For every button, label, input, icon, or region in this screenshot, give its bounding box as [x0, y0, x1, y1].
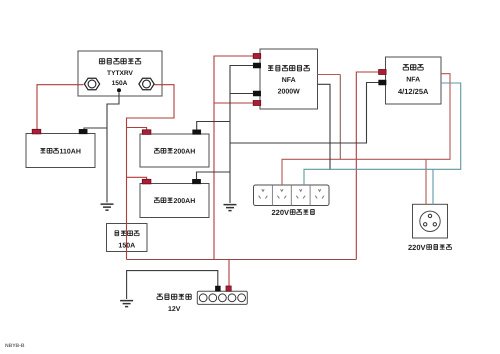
wire: isolator center tap to ground (dark): [107, 93, 119, 203]
input socket pin hole top: [428, 214, 431, 217]
output socket strip divider 1: [271, 185, 273, 206]
wire: charger DC + down to bus (red): [356, 72, 385, 260]
wire: cigarette lighter - to ground (dark): [127, 271, 218, 299]
lighter socket hole 1: [199, 294, 207, 302]
svg-text:200AH: 200AH: [174, 149, 196, 156]
wire: stub to aux battery B2 + terminal: [127, 128, 147, 132]
charger + terminal: [379, 70, 387, 75]
aux battery B3 + terminal: [142, 179, 151, 184]
svg-text:220V: 220V: [408, 243, 426, 252]
aux battery B2 box: [140, 134, 209, 167]
output socket cell 1 pin holes: [259, 189, 268, 198]
wire: inverter - terminal 1 to ground column (dark): [230, 66, 260, 204]
wire: AC live drop to input socket (red): [425, 159, 427, 204]
ground G3 (lighter negative): [120, 301, 133, 307]
wire: inverter AC live out to bus (red): [318, 74, 341, 76]
cigarette lighter socket X3 box: [197, 291, 247, 304]
wire: drop to cigarette lighter + (red): [228, 260, 230, 288]
input socket label 220V输入插座: [408, 243, 451, 252]
wire: AC live riser at x340 (dark red): [339, 75, 341, 160]
aux battery B3 label 副电瓶200AH: [154, 198, 195, 205]
isolator right hex stud terminal: [139, 78, 154, 90]
aux battery B2 label 副电瓶200AH: [154, 148, 195, 155]
wire: stub to aux battery B3 + terminal: [127, 177, 147, 181]
svg-text:220V: 220V: [272, 208, 290, 217]
svg-text:4/12/25A: 4/12/25A: [398, 87, 429, 96]
svg-text:TYTXRV: TYTXRV: [107, 70, 133, 77]
wire: isolator right terminal to aux battery + column (red): [127, 85, 175, 260]
ground G2 (aux/inverter negative): [224, 205, 237, 211]
output socket strip divider 3: [309, 185, 311, 206]
isolator U1 双电瓶隔离器 box: [78, 51, 162, 96]
svg-text:NFA: NFA: [282, 77, 296, 84]
output socket cell 3 pin holes: [296, 189, 305, 198]
main battery + terminal (red block): [32, 129, 41, 134]
svg-text:110AH: 110AH: [60, 149, 81, 156]
output socket cell 2 pin holes: [277, 189, 286, 198]
wire: branch to inverter + terminal 2 (red): [214, 102, 260, 104]
aux battery B3 - terminal: [192, 179, 200, 184]
main battery label 主电瓶110AH: [41, 148, 81, 155]
charger U3 充电器 box: [386, 57, 442, 104]
charger label 充电器: [403, 65, 423, 70]
output socket cell 4 pin holes: [315, 189, 324, 198]
lighter socket + terminal: [226, 286, 231, 291]
aux battery B2 - terminal: [193, 130, 201, 135]
lighter socket hole 4: [228, 294, 236, 302]
lighter socket label 点烟器插座: [157, 294, 191, 300]
svg-text:150A: 150A: [118, 243, 135, 250]
inverter U2 正弦波逆变器 box: [260, 49, 318, 109]
inverter label 正弦波逆变器: [268, 65, 309, 71]
220V input socket X2 box: [413, 204, 448, 238]
wire: AC live bus (red) output socket to charger: [282, 74, 450, 185]
charger - terminal: [379, 80, 387, 85]
wire: inverter - terminal 2 branch (dark): [230, 93, 260, 95]
svg-text:2000W: 2000W: [278, 89, 301, 96]
wire: main battery - to ground line (dark): [84, 128, 107, 130]
wire: aux battery B2 - to ground column (dark): [197, 122, 230, 130]
wire: charger - to ground column (dark): [230, 83, 386, 144]
lighter socket - terminal: [215, 286, 220, 291]
output socket label 220V输出插座: [272, 208, 315, 217]
isolator center tap node (dot): [117, 88, 121, 92]
svg-text:150A: 150A: [112, 80, 128, 87]
DC switch label 直流开关: [115, 231, 139, 236]
svg-text:12V: 12V: [168, 306, 181, 313]
wire: inverter AC neutral out to teal bus (dark): [318, 84, 331, 170]
output socket strip divider 2: [290, 185, 292, 206]
aux battery B2 + terminal: [142, 130, 151, 135]
wire: AC neutral drop to input socket (teal): [432, 169, 434, 204]
isolator left hex stud terminal: [84, 78, 99, 90]
wire: DC + bus to charger (red/maroon): [127, 259, 357, 261]
aux battery B3 box: [140, 184, 209, 218]
inverter - terminal 2: [253, 91, 261, 96]
lighter socket hole 5: [238, 294, 246, 302]
isolator label 双电瓶隔离器: [99, 58, 140, 64]
lighter socket hole 3: [219, 294, 227, 302]
wire: DC + riser to inverter + terminals (red): [214, 56, 260, 260]
input socket pin hole left: [424, 223, 427, 226]
wire: AC neutral bus (teal) output socket to charger: [304, 83, 461, 185]
inverter - terminal 1: [253, 63, 261, 68]
input socket round face: [420, 211, 440, 231]
wire: main battery + to isolator left terminal (red): [37, 85, 84, 130]
ground G1 (isolator/main battery negative): [101, 204, 114, 210]
wire: aux battery B3 - to ground column (dark): [197, 172, 231, 180]
lighter socket hole 2: [209, 294, 217, 302]
main battery - terminal (black block): [79, 129, 87, 134]
svg-text:NBYB-B: NBYB-B: [5, 343, 25, 349]
inverter + terminal 2: [253, 101, 261, 106]
main battery B1 box: [26, 134, 95, 168]
DC switch S1 直流开关 box: [107, 224, 148, 252]
svg-text:NFA: NFA: [406, 77, 420, 84]
input socket pin hole right: [433, 223, 436, 226]
inverter + terminal 1: [253, 54, 261, 59]
svg-text:200AH: 200AH: [174, 198, 196, 205]
220V output socket strip X1 box: [254, 185, 330, 206]
